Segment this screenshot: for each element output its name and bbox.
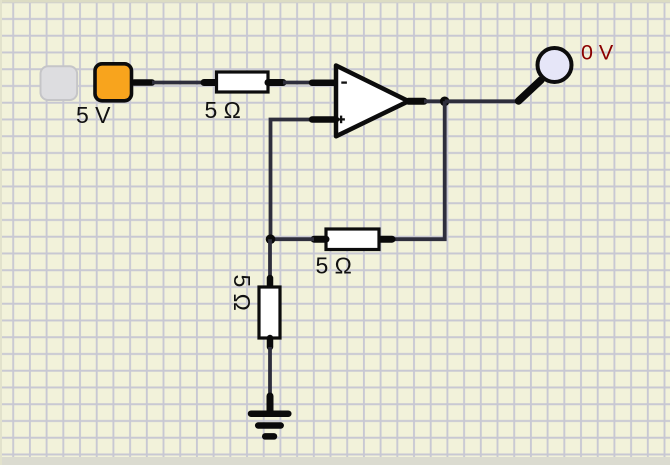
ground xyxy=(251,414,288,437)
wire node A to probe xyxy=(445,80,541,101)
svg-text:5 Ω: 5 Ω xyxy=(316,253,352,279)
wire R2 to node B xyxy=(271,236,327,243)
wire R1 to op-amp inverting input xyxy=(268,79,336,86)
resistor R2 xyxy=(326,229,379,250)
svg-text:5 Ω: 5 Ω xyxy=(229,275,255,311)
voltmeter probe xyxy=(538,48,572,82)
svg-text:5 V: 5 V xyxy=(76,102,111,128)
wire op-amp output to node A xyxy=(409,98,445,105)
op-amp U1 xyxy=(336,66,409,137)
node B (feedback junction) xyxy=(266,234,276,244)
resistor R1 xyxy=(217,72,269,92)
resistor R3 xyxy=(259,287,280,338)
node A (output junction) xyxy=(440,97,450,107)
svg-text:0 V: 0 V xyxy=(581,40,614,64)
wire node B down to R3 xyxy=(268,239,272,286)
gray button xyxy=(41,66,78,100)
voltage source V1 (orange button) xyxy=(95,64,132,101)
wire V1 to R1 xyxy=(134,79,215,86)
wire R3 to ground xyxy=(267,338,274,412)
feedback wire node A down to R2 xyxy=(380,101,445,239)
wire node B up to op-amp non-inverting input xyxy=(271,120,337,240)
svg-text:5 Ω: 5 Ω xyxy=(205,97,241,123)
